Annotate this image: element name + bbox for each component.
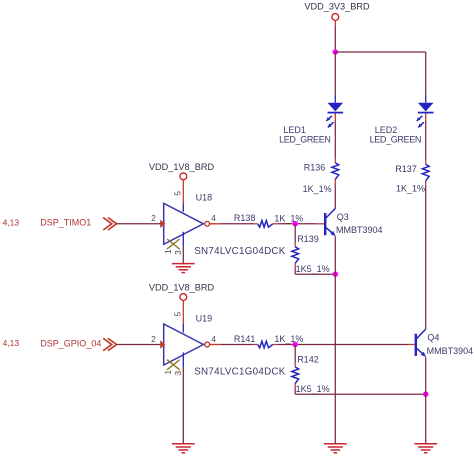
wire port to gate input: [116, 223, 161, 225]
resistor R136 pins: [334, 159, 336, 163]
output pin 4 stub: [210, 223, 221, 225]
svg-text:5: 5: [173, 311, 183, 316]
LED1 cathode pin: [334, 114, 336, 121]
svg-text:U19: U19: [196, 313, 213, 323]
resistor R141: [258, 341, 273, 348]
Q3 base pin: [317, 223, 324, 225]
svg-text:VDD_1V8_BRD: VDD_1V8_BRD: [149, 162, 215, 172]
junction Q4 emitter rail: [423, 391, 429, 397]
output bubble U19: [205, 342, 210, 347]
svg-text:1K_1%: 1K_1%: [396, 183, 425, 193]
wire U19 output to R141: [221, 344, 253, 346]
svg-text:1K5_1%: 1K5_1%: [296, 264, 330, 274]
ground (Q3 emitter): [324, 444, 347, 453]
power symbol VDD_3V3_BRD: [304, 1, 370, 26]
pin 3 wire to ground: [182, 367, 184, 444]
ground (U18): [172, 264, 195, 273]
resistor R142: [292, 367, 299, 384]
junction R138/R139: [292, 221, 298, 227]
wire LED1 to R136: [334, 121, 336, 159]
svg-text:4: 4: [211, 334, 216, 344]
resistor R138: [258, 221, 273, 228]
svg-text:MMBT3904: MMBT3904: [336, 225, 383, 235]
wire junction down to R142: [294, 345, 296, 363]
svg-text:SN74LVC1G04DCK: SN74LVC1G04DCK: [194, 367, 286, 378]
wire LED2 to R137: [425, 121, 427, 161]
R142 labels: [296, 355, 330, 395]
wire R141 to Q4 base: [277, 344, 408, 346]
op-amp U18 (inverter SN74LVC1G04DCK): [164, 203, 204, 244]
ground (U19): [172, 444, 195, 453]
output pin 4 stub: [210, 344, 221, 346]
svg-text:4,13: 4,13: [3, 338, 20, 348]
wire R136 to Q3 collector: [334, 185, 336, 209]
R139 labels: [296, 234, 330, 274]
LED2 labels: [370, 125, 421, 145]
pin 5 wire (U19 VDD): [182, 301, 184, 324]
svg-text:5: 5: [173, 191, 183, 196]
svg-text:1K_1%: 1K_1%: [274, 334, 303, 344]
no-connect X pin 1: [167, 360, 180, 370]
transistor Q4 MMBT3904: [416, 329, 426, 357]
resistor R142 pins: [294, 363, 296, 367]
pin 3 wire (U18 GND): [182, 232, 184, 247]
R138 labels: [234, 213, 304, 223]
no-connect X pin 1: [167, 239, 180, 249]
svg-text:1K_1%: 1K_1%: [274, 213, 303, 223]
off-page port DSP_TIMO1: [103, 218, 116, 230]
svg-text:LED_GREEN: LED_GREEN: [279, 134, 330, 144]
svg-text:R139: R139: [297, 234, 319, 244]
resistor R138 pins: [253, 223, 258, 225]
R136 labels: [303, 162, 332, 194]
svg-text:R138: R138: [234, 213, 256, 223]
pin 3 wire to ground: [182, 246, 184, 263]
svg-text:VDD_1V8_BRD: VDD_1V8_BRD: [149, 283, 215, 293]
R137 labels: [395, 164, 425, 194]
svg-text:LED2: LED2: [375, 125, 398, 135]
wire junction to LED2 branch: [335, 51, 425, 53]
svg-text:1K5_1%: 1K5_1%: [296, 384, 330, 394]
diode LED1: [326, 103, 343, 128]
LED2 anode pin: [425, 95, 427, 103]
Q4 labels: [427, 333, 474, 356]
wire Q4 emitter to ground: [425, 357, 427, 444]
svg-text:R141: R141: [234, 334, 256, 344]
Q4 base pin: [408, 344, 415, 346]
transistor Q3 MMBT3904: [325, 208, 336, 236]
op-amp U19 (inverter SN74LVC1G04DCK): [164, 324, 204, 365]
junction emitter rail: [333, 271, 339, 277]
junction R141/R142: [292, 342, 298, 348]
wire R138 to Q3 base: [277, 223, 317, 225]
wire VDD_3V3_BRD to junction: [334, 26, 336, 52]
pin 5 wire (U18 VDD): [182, 180, 184, 203]
LED1 labels: [279, 125, 330, 145]
resistor R137 pins: [425, 160, 427, 164]
resistor R139: [292, 247, 299, 263]
LED1 anode pin: [334, 95, 336, 103]
svg-text:3: 3: [173, 371, 183, 376]
pin 3 wire (U19 GND): [182, 353, 184, 368]
svg-text:LED_GREEN: LED_GREEN: [370, 134, 421, 144]
wire R137 to Q4 collector: [425, 186, 427, 329]
svg-text:1K_1%: 1K_1%: [303, 184, 332, 194]
resistor R136: [332, 163, 339, 180]
svg-text:4: 4: [211, 213, 216, 223]
R141 labels: [234, 334, 304, 344]
wire junction down to R139: [294, 224, 296, 243]
wire R139 to emitter rail: [294, 268, 296, 275]
resistor R139 pins: [294, 243, 296, 247]
svg-text:DSP_TIMO1: DSP_TIMO1: [40, 218, 91, 228]
ground (Q4 emitter): [414, 444, 437, 453]
Q3 labels: [336, 212, 383, 235]
wire port to gate input: [116, 344, 161, 346]
junction VDD rail: [333, 49, 339, 55]
svg-text:3: 3: [173, 250, 183, 255]
input arrowhead pin 2: [160, 340, 165, 348]
svg-text:1: 1: [163, 370, 173, 375]
svg-text:R137: R137: [395, 164, 417, 174]
input arrowhead pin 2: [160, 220, 165, 228]
svg-text:VDD_3V3_BRD: VDD_3V3_BRD: [304, 1, 370, 11]
output bubble U18: [205, 221, 210, 226]
svg-text:R136: R136: [304, 162, 326, 172]
wire U18 output to R138: [221, 223, 253, 225]
wire R142 to Q4 emitter rail: [294, 388, 296, 395]
svg-text:LED1: LED1: [283, 125, 306, 135]
diode LED2: [417, 103, 434, 128]
svg-text:MMBT3904: MMBT3904: [427, 346, 474, 356]
LED2 cathode pin: [425, 114, 427, 121]
resistor R141 pins: [253, 344, 258, 346]
resistor R137: [422, 164, 429, 181]
power symbol VDD_1V8_BRD (U18): [149, 162, 215, 180]
svg-text:DSP_GPIO_04: DSP_GPIO_04: [40, 338, 101, 348]
svg-text:SN74LVC1G04DCK: SN74LVC1G04DCK: [194, 246, 286, 257]
svg-text:4,13: 4,13: [3, 218, 20, 228]
svg-text:1: 1: [163, 249, 173, 254]
svg-text:2: 2: [151, 334, 156, 344]
power symbol VDD_1V8_BRD (U19): [149, 283, 215, 301]
off-page port DSP_GPIO_04: [103, 338, 116, 350]
svg-text:Q4: Q4: [427, 333, 439, 343]
svg-text:U18: U18: [196, 193, 213, 203]
wire Q3 emitter to ground: [334, 236, 336, 443]
wire junction to LED1: [334, 52, 336, 95]
svg-text:Q3: Q3: [337, 212, 349, 222]
svg-text:2: 2: [151, 213, 156, 223]
svg-text:R142: R142: [297, 355, 319, 365]
